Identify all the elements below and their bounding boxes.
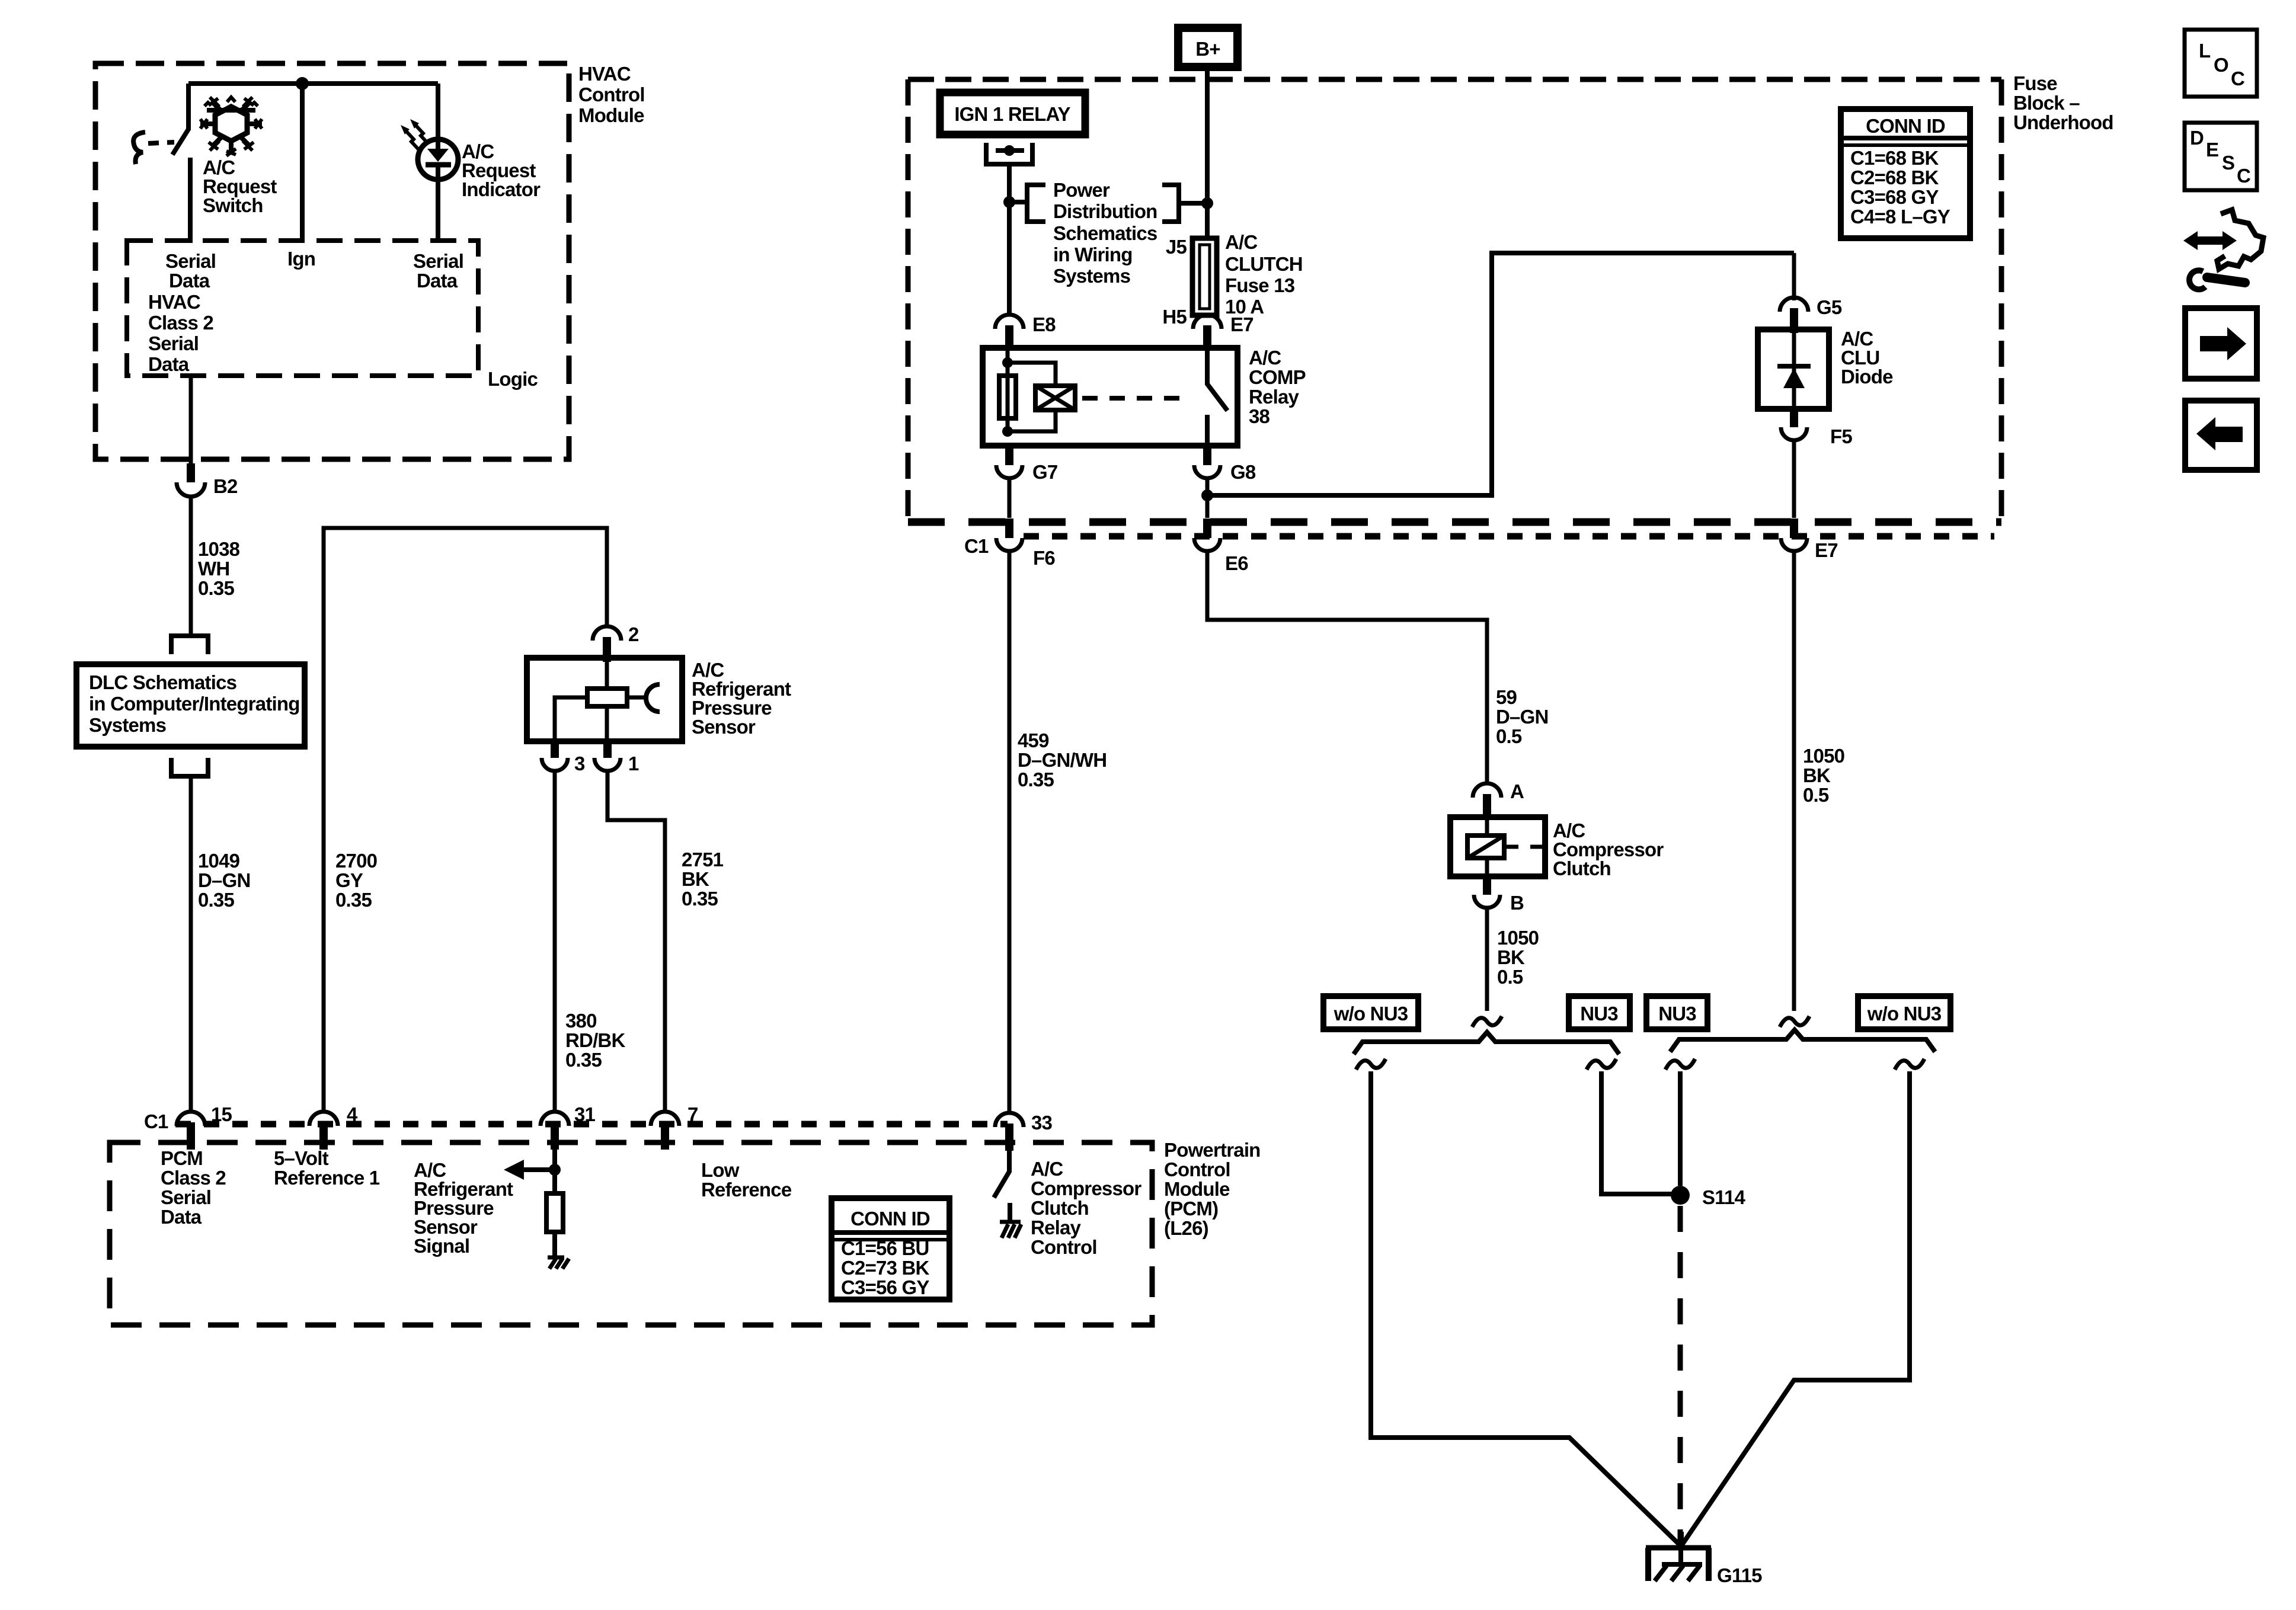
svg-text:RD/BK: RD/BK xyxy=(565,1029,625,1051)
svg-text:Schematics: Schematics xyxy=(1053,222,1157,244)
svg-text:DLC Schematics: DLC Schematics xyxy=(89,671,236,693)
svg-text:Powertrain: Powertrain xyxy=(1164,1139,1261,1161)
svg-text:CONN ID: CONN ID xyxy=(850,1208,930,1230)
svg-text:Serial: Serial xyxy=(148,332,199,354)
svg-text:D–GN/WH: D–GN/WH xyxy=(1018,749,1107,771)
svg-text:Data: Data xyxy=(161,1206,202,1228)
svg-text:Systems: Systems xyxy=(1053,265,1130,287)
svg-text:Data: Data xyxy=(417,270,458,292)
svg-text:1050: 1050 xyxy=(1803,745,1844,767)
svg-text:33: 33 xyxy=(1031,1112,1053,1134)
svg-text:J5: J5 xyxy=(1166,236,1187,258)
svg-text:A/C: A/C xyxy=(1249,347,1281,369)
svg-text:G115: G115 xyxy=(1717,1564,1762,1586)
svg-text:w/o NU3: w/o NU3 xyxy=(1334,1003,1408,1025)
svg-text:Ign: Ign xyxy=(287,248,315,270)
svg-text:S: S xyxy=(2222,152,2234,174)
svg-text:Class 2: Class 2 xyxy=(161,1167,226,1189)
svg-text:G5: G5 xyxy=(1817,296,1842,318)
svg-text:Compressor: Compressor xyxy=(1031,1177,1141,1199)
svg-text:0.35: 0.35 xyxy=(198,577,234,599)
svg-text:Control: Control xyxy=(1164,1158,1230,1180)
svg-text:Systems: Systems xyxy=(89,714,166,736)
svg-text:O: O xyxy=(2214,54,2228,76)
svg-text:HVAC: HVAC xyxy=(578,63,631,85)
svg-text:4: 4 xyxy=(347,1103,358,1125)
svg-text:Clutch: Clutch xyxy=(1031,1197,1089,1219)
svg-text:BK: BK xyxy=(682,868,709,890)
svg-text:3: 3 xyxy=(574,753,585,774)
svg-text:Relay: Relay xyxy=(1249,386,1300,408)
svg-text:Fuse 13: Fuse 13 xyxy=(1225,274,1295,296)
svg-text:Indicator: Indicator xyxy=(462,178,541,200)
svg-text:Control: Control xyxy=(578,84,645,105)
svg-text:D: D xyxy=(2190,127,2204,149)
svg-text:A/C: A/C xyxy=(1031,1158,1063,1180)
svg-text:Serial: Serial xyxy=(165,250,216,272)
svg-text:NU3: NU3 xyxy=(1580,1003,1618,1025)
svg-text:Reference 1: Reference 1 xyxy=(274,1167,380,1189)
svg-text:0.35: 0.35 xyxy=(565,1049,602,1071)
svg-text:B: B xyxy=(1510,892,1524,914)
svg-text:C1=68 BK: C1=68 BK xyxy=(1850,147,1939,169)
svg-text:15: 15 xyxy=(211,1103,232,1125)
svg-text:C1: C1 xyxy=(144,1110,168,1132)
svg-text:Low: Low xyxy=(701,1159,740,1181)
svg-text:BK: BK xyxy=(1497,946,1525,968)
svg-text:Control: Control xyxy=(1031,1236,1097,1258)
svg-text:HVAC: HVAC xyxy=(148,291,200,313)
svg-text:C3=68 GY: C3=68 GY xyxy=(1850,186,1939,208)
svg-text:(PCM): (PCM) xyxy=(1164,1198,1218,1219)
svg-text:Power: Power xyxy=(1053,179,1110,201)
svg-text:in Computer/Integrating: in Computer/Integrating xyxy=(89,693,300,715)
svg-text:Reference: Reference xyxy=(701,1179,792,1201)
svg-text:Module: Module xyxy=(1164,1178,1230,1200)
svg-text:0.35: 0.35 xyxy=(682,888,718,910)
svg-text:PCM: PCM xyxy=(161,1147,203,1169)
svg-text:1038: 1038 xyxy=(198,538,240,560)
svg-text:Block –: Block – xyxy=(2013,92,2080,114)
svg-text:E7: E7 xyxy=(1815,539,1838,561)
svg-text:59: 59 xyxy=(1496,686,1517,708)
svg-text:CONN ID: CONN ID xyxy=(1866,115,1945,137)
svg-text:F5: F5 xyxy=(1830,425,1852,447)
svg-text:Diode: Diode xyxy=(1841,366,1893,388)
svg-text:Logic: Logic xyxy=(488,368,538,390)
svg-text:Distribution: Distribution xyxy=(1053,200,1157,222)
svg-text:38: 38 xyxy=(1249,405,1270,427)
svg-text:Serial: Serial xyxy=(161,1186,211,1208)
svg-text:NU3: NU3 xyxy=(1658,1003,1696,1025)
svg-text:G8: G8 xyxy=(1230,461,1256,483)
svg-text:E8: E8 xyxy=(1032,313,1056,335)
svg-text:C: C xyxy=(2237,165,2250,187)
svg-text:C2=68 BK: C2=68 BK xyxy=(1850,167,1939,188)
svg-text:(L26): (L26) xyxy=(1164,1217,1208,1239)
svg-text:2751: 2751 xyxy=(682,849,724,870)
svg-text:B+: B+ xyxy=(1195,38,1220,60)
svg-text:380: 380 xyxy=(565,1010,597,1032)
svg-text:31: 31 xyxy=(574,1103,596,1125)
svg-text:in Wiring: in Wiring xyxy=(1053,244,1133,265)
svg-text:GY: GY xyxy=(335,869,363,891)
svg-text:w/o NU3: w/o NU3 xyxy=(1867,1003,1942,1025)
svg-text:2: 2 xyxy=(628,623,639,645)
svg-text:0.5: 0.5 xyxy=(1497,966,1523,988)
svg-text:C4=8 L–GY: C4=8 L–GY xyxy=(1850,206,1950,228)
svg-text:Data: Data xyxy=(148,353,190,375)
svg-text:C3=56 GY: C3=56 GY xyxy=(841,1276,929,1298)
svg-text:Clutch: Clutch xyxy=(1553,857,1611,879)
svg-text:A: A xyxy=(1510,780,1524,802)
svg-text:Sensor: Sensor xyxy=(692,716,756,738)
svg-text:459: 459 xyxy=(1018,729,1049,751)
svg-text:F6: F6 xyxy=(1033,547,1055,569)
svg-text:B2: B2 xyxy=(213,475,238,497)
svg-text:CLUTCH: CLUTCH xyxy=(1225,253,1303,275)
svg-text:A/C: A/C xyxy=(1225,231,1257,253)
svg-text:Signal: Signal xyxy=(414,1235,469,1257)
svg-text:C1: C1 xyxy=(964,535,989,557)
svg-text:5–Volt: 5–Volt xyxy=(274,1147,329,1169)
svg-text:Switch: Switch xyxy=(203,194,263,216)
svg-text:G7: G7 xyxy=(1032,461,1057,483)
svg-text:H5: H5 xyxy=(1162,306,1187,328)
svg-text:7: 7 xyxy=(687,1103,698,1125)
svg-text:IGN 1 RELAY: IGN 1 RELAY xyxy=(954,103,1070,125)
svg-text:BK: BK xyxy=(1803,764,1831,786)
svg-text:S114: S114 xyxy=(1702,1186,1745,1208)
svg-text:1: 1 xyxy=(628,753,639,774)
svg-text:Serial: Serial xyxy=(413,250,463,272)
svg-text:0.35: 0.35 xyxy=(198,889,234,911)
svg-text:Underhood: Underhood xyxy=(2013,111,2113,133)
svg-text:D–GN: D–GN xyxy=(1496,706,1549,728)
svg-text:L: L xyxy=(2199,40,2211,62)
svg-text:C: C xyxy=(2231,68,2244,89)
svg-text:COMP: COMP xyxy=(1249,366,1306,388)
svg-text:1050: 1050 xyxy=(1497,927,1539,949)
svg-text:E7: E7 xyxy=(1230,313,1253,335)
svg-text:Fuse: Fuse xyxy=(2013,72,2057,94)
svg-text:0.35: 0.35 xyxy=(335,889,372,911)
svg-text:E6: E6 xyxy=(1225,552,1248,574)
svg-text:D–GN: D–GN xyxy=(198,869,251,891)
svg-text:0.5: 0.5 xyxy=(1496,725,1522,747)
svg-text:WH: WH xyxy=(198,558,229,580)
svg-text:Relay: Relay xyxy=(1031,1217,1082,1238)
svg-text:C2=73 BK: C2=73 BK xyxy=(841,1257,930,1279)
svg-text:0.5: 0.5 xyxy=(1803,784,1829,806)
svg-text:Data: Data xyxy=(169,270,210,292)
svg-text:E: E xyxy=(2206,139,2218,161)
svg-text:2700: 2700 xyxy=(335,850,377,872)
svg-text:0.35: 0.35 xyxy=(1018,769,1054,790)
svg-text:Class 2: Class 2 xyxy=(148,312,213,334)
svg-text:C1=56 BU: C1=56 BU xyxy=(841,1237,929,1259)
svg-text:Module: Module xyxy=(578,104,644,126)
svg-text:1049: 1049 xyxy=(198,850,240,872)
